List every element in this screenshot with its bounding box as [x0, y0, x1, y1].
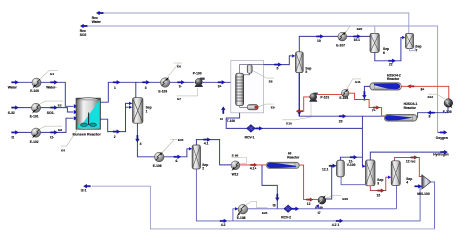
wire stream Water- to reactor: [41, 80, 78, 108]
energy stream E7: [177, 88, 198, 101]
wire stream 20 (Sep 5 bottoms to H2SO4-1): [298, 73, 385, 124]
svg-text:Water: Water: [8, 85, 18, 89]
separator Sep 1: [133, 98, 152, 124]
pump P-101: [309, 93, 329, 102]
svg-text:4.2 1: 4.2 1: [332, 223, 339, 227]
wire E-108 outlet to RCV-2: [248, 208, 284, 210]
heat exchanger E-106: [153, 152, 164, 169]
column tower T-100: [236, 73, 244, 106]
separator Sep 6: [370, 33, 389, 55]
svg-text:Reactor: Reactor: [287, 156, 300, 160]
pump P-100: [193, 72, 205, 87]
heat exchanger E-103: [158, 77, 169, 94]
svg-text:E23: E23: [342, 197, 348, 201]
svg-text:Oxygen: Oxygen: [436, 136, 448, 140]
svg-text:E-101: E-101: [30, 114, 39, 118]
svg-text:E15: E15: [178, 138, 184, 142]
heat exchanger W12: [231, 161, 240, 177]
svg-text:I2: I2: [12, 136, 15, 140]
energy stream E4: [61, 129, 79, 153]
svg-text:Bunsen Reactor: Bunsen Reactor: [73, 133, 102, 137]
wire T-100 bottoms to RCV-1: [226, 113, 246, 129]
wire stream I2- to reactor: [41, 116, 78, 139]
separator Sep 4: [391, 161, 412, 186]
svg-text:7: 7: [416, 48, 418, 52]
svg-text:E-103: E-103: [158, 90, 167, 94]
wire stream 22 (Sep 6 bottoms to Sep 7): [375, 36, 406, 67]
energy stream E23: [326, 196, 348, 201]
reactor HI Reactor (PFR): [266, 152, 300, 169]
svg-text:3: 3: [145, 86, 147, 90]
svg-text:4: 4: [406, 181, 408, 185]
svg-text:S-32: S-32: [8, 111, 15, 115]
wire Rec SO2 recycle line: [80, 24, 437, 132]
wire vertical to Sep 3 feed: [362, 116, 365, 168]
svg-text:SO2-: SO2-: [47, 111, 55, 115]
separator Sep 5: [296, 52, 312, 74]
svg-text:E-106: E-106: [153, 164, 162, 168]
wire RCV-2 outlet / Sep 4 bottoms line: [292, 203, 397, 211]
mixer MIX-100: [417, 175, 431, 196]
svg-text:12: 12: [307, 202, 311, 206]
wire stream 3+ (P-100 to T-100): [203, 80, 236, 88]
energy stream E1: [40, 71, 58, 79]
svg-text:4-: 4-: [175, 159, 178, 163]
svg-text:E 98: E 98: [232, 153, 239, 157]
svg-text:E20: E20: [357, 27, 363, 31]
svg-text:T-100: T-100: [227, 119, 236, 123]
svg-text:E-104: E-104: [339, 96, 348, 100]
svg-text:P-100: P-100: [193, 72, 202, 76]
svg-text:E4: E4: [61, 148, 65, 152]
compressor K-100: [315, 195, 326, 215]
svg-text:E-107: E-107: [336, 43, 345, 47]
svg-text:7+: 7+: [372, 108, 376, 112]
wire Sep 6 overhead to recycle line: [374, 26, 376, 33]
energy stream E2: [40, 101, 63, 107]
reactor H2SO4-1 (PFR): [384, 102, 417, 121]
svg-text:22: 22: [389, 63, 393, 67]
pump P-101 suction (red): [296, 97, 310, 113]
svg-text:16: 16: [220, 117, 223, 121]
svg-text:RCV-1: RCV-1: [245, 136, 255, 140]
separator Sep 3: [366, 160, 384, 186]
svg-text:E10: E10: [286, 121, 292, 125]
svg-text:V-100: V-100: [347, 163, 356, 167]
svg-text:19: 19: [317, 39, 321, 43]
svg-text:Reactor: Reactor: [404, 106, 417, 110]
svg-text:12.1: 12.1: [322, 167, 329, 171]
heat exchanger E-108: [237, 204, 248, 220]
wire Hydrogen product line: [370, 150, 448, 160]
svg-text:MIX-100: MIX-100: [417, 192, 430, 196]
svg-text:E11: E11: [355, 80, 361, 84]
heat exchanger E-105: [443, 99, 453, 115]
svg-text:12 rec: 12 rec: [406, 159, 416, 163]
svg-text:W12: W12: [232, 173, 239, 177]
wire stream 12-rec (Sep 4 overhead to MIX-100): [395, 156, 422, 177]
wire stream S-32 inlet: [8, 106, 32, 115]
wire P-101 discharge to E-104 (red): [318, 94, 342, 96]
svg-text:3-: 3-: [179, 85, 182, 89]
wire stream I2 inlet: [12, 131, 32, 140]
svg-text:8+: 8+: [421, 88, 425, 92]
svg-text:t7: t7: [318, 211, 321, 215]
reboiler: [240, 105, 259, 110]
svg-text:19.1: 19.1: [354, 38, 361, 42]
energy stream E3: [40, 126, 63, 132]
svg-text:E12: E12: [428, 95, 434, 99]
wire stream 4.1+ (W12 to HI Reactor): [240, 163, 266, 170]
wire H2SO4-2 outlet to junction: [363, 86, 370, 100]
wire stream 7+ (E-104 to H2SO4-1, red staircase): [349, 93, 385, 116]
node Rec SO2 label: [80, 29, 87, 37]
energy stream E6: [167, 63, 182, 78]
heat exchanger E-101: [30, 103, 41, 118]
separator Sep 2: [192, 145, 208, 170]
valve RCV-2: [281, 205, 292, 220]
svg-text:E-108: E-108: [237, 216, 246, 220]
svg-text:I2-1: I2-1: [81, 189, 87, 193]
wire stream 12 (HI Reactor to K-100, red): [299, 165, 318, 206]
svg-text:E6: E6: [177, 65, 181, 69]
svg-text:E9: E9: [271, 105, 275, 109]
wire stream 3 (Sep 1 top to E-103): [136, 80, 161, 90]
energy stream E12: [428, 94, 445, 99]
svg-text:Water-: Water-: [46, 85, 56, 89]
svg-text:E24: E24: [262, 211, 268, 215]
wire Sep 4 bottoms: [396, 186, 398, 209]
wire V-100 bottoms to Sep 3: [341, 177, 365, 185]
wire stream 3- (E-103 to P-100): [170, 80, 195, 88]
wire stream 5 (T-100 distillate to Sep 5): [264, 54, 296, 70]
wire stream 8+ (E-105 to H2SO4-2): [401, 85, 448, 100]
energy stream E10: [282, 102, 311, 125]
wire stream Water inlet: [8, 80, 32, 89]
svg-text:E8: E8: [269, 79, 273, 83]
wire stream 15 (Sep 3 bottoms to Sep 4): [370, 176, 391, 198]
svg-text:E7: E7: [177, 97, 181, 101]
svg-text:1: 1: [146, 110, 148, 114]
energy stream E9: [258, 104, 274, 109]
energy stream E11: [347, 79, 361, 89]
svg-text:4: 4: [140, 142, 142, 146]
wire stream 8 (E-105 to H2SO4-1): [418, 107, 448, 118]
svg-text:5: 5: [277, 67, 279, 71]
reactor Bunsen Reactor: [73, 98, 102, 137]
svg-text:3+: 3+: [218, 85, 222, 89]
wire stream 4 (Sep 1 bottoms to E-106): [136, 123, 155, 157]
subflowsheet box T-100: [231, 60, 264, 112]
svg-text:15: 15: [377, 194, 381, 198]
svg-text:2: 2: [202, 166, 204, 170]
heat exchanger E-107: [336, 31, 346, 47]
svg-text:4.1: 4.1: [204, 142, 209, 146]
svg-text:I2-: I2-: [50, 136, 54, 140]
svg-text:4.2: 4.2: [221, 223, 226, 227]
svg-text:E2: E2: [58, 103, 62, 107]
svg-text:SO2: SO2: [80, 33, 87, 37]
wire Sep 7 bottoms hook: [410, 45, 416, 51]
svg-text:6: 6: [383, 51, 385, 55]
reactor H2SO4-2 (PFR): [370, 73, 402, 90]
wire Rec Water recycle line: [96, 11, 409, 33]
wire stream 2 (reactor bottom to Sep 1): [100, 102, 132, 139]
svg-text:20: 20: [339, 120, 343, 124]
svg-text:5: 5: [305, 70, 307, 74]
svg-text:RCV-2: RCV-2: [281, 215, 291, 219]
energy stream E15: [162, 138, 184, 153]
heat exchanger E-104: [339, 89, 349, 101]
wire stream 4.2 (Sep 2 bottoms along bottom): [196, 169, 421, 227]
svg-text:P-101: P-101: [320, 96, 329, 100]
separator vessel V-100: [337, 160, 356, 177]
svg-text:E1: E1: [50, 72, 54, 76]
energy stream E24: [246, 201, 268, 215]
heat exchanger E-100: [30, 78, 41, 93]
energy stream E8: [253, 71, 274, 84]
valve RCV-1: [245, 125, 256, 140]
wire MIX-100 outlet recycle to I2-1: [81, 182, 435, 229]
svg-text:E-102: E-102: [30, 140, 39, 144]
wire stream 4- (E-106 to Sep 2): [164, 147, 192, 163]
wire RCV-1 outlet line to Sep 3 drop: [255, 126, 362, 130]
svg-text:t9: t9: [273, 203, 276, 207]
energy stream E20: [346, 26, 363, 32]
svg-text:E-105: E-105: [443, 110, 452, 114]
node Oxygen product: [436, 131, 448, 141]
condenser drum: [244, 65, 253, 75]
svg-text:2: 2: [114, 135, 116, 139]
svg-text:Hydrogen: Hydrogen: [433, 152, 448, 156]
energy stream E-98: [232, 153, 247, 163]
wire condenser overhead line: [240, 65, 264, 74]
wire stream 4.1 (Sep 2 overhead to W12): [196, 138, 231, 165]
svg-text:Reactor: Reactor: [387, 77, 400, 81]
wire stream SO2- to reactor: [41, 106, 78, 115]
svg-text:E-100: E-100: [30, 89, 39, 93]
wire stream 12- (V-100 overhead to Sep 3 feed): [340, 155, 362, 160]
heat exchanger E-102: [30, 128, 41, 144]
svg-text:E3: E3: [58, 128, 62, 132]
wire stream 19.1 (E-107 to Sep 6): [347, 35, 370, 43]
wire stream 12.1 (K-100 to V-100): [322, 164, 337, 199]
separator Sep 7: [406, 34, 422, 53]
node Rec Water label: [92, 16, 102, 24]
node stream 16 feed arrow: [220, 107, 225, 122]
svg-text:Water: Water: [92, 20, 102, 24]
svg-text:4.1+: 4.1+: [250, 167, 257, 171]
svg-text:3: 3: [377, 182, 379, 186]
wire stream 19 (Sep 5 overhead to E-107): [299, 35, 338, 52]
wire tee from 4.1+ down to RCV-2 line: [262, 165, 279, 209]
svg-text:1: 1: [114, 86, 116, 90]
wire stream 1 (reactor top to Sep 1): [100, 80, 135, 102]
wire riser from 4.2 line to E-108: [233, 207, 238, 221]
svg-text:8: 8: [429, 114, 431, 118]
